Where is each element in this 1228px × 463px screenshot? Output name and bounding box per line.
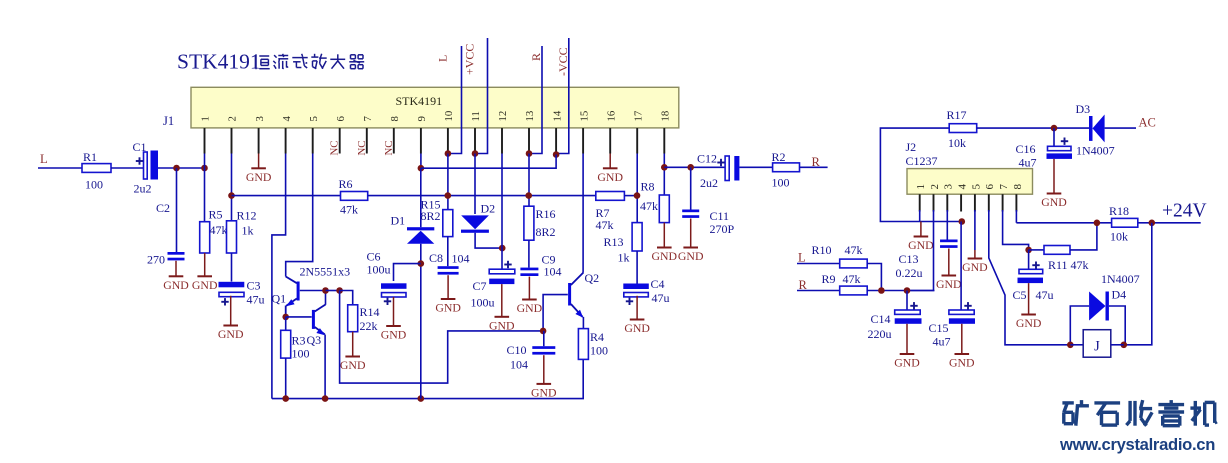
diode D2 bbox=[461, 215, 489, 229]
wire C6 branch bbox=[394, 264, 421, 281]
svg-text:2u2: 2u2 bbox=[700, 176, 718, 190]
svg-text:1k: 1k bbox=[242, 224, 254, 238]
svg-text:220u: 220u bbox=[868, 327, 892, 341]
junction pin14 bbox=[553, 151, 560, 158]
junction bus D1 line bbox=[418, 395, 425, 402]
svg-text:C16: C16 bbox=[1016, 142, 1036, 156]
resistor R15 bbox=[443, 210, 453, 237]
svg-text:7: 7 bbox=[998, 184, 1010, 190]
junction relay left bbox=[1067, 342, 1074, 349]
svg-text:1k: 1k bbox=[618, 251, 630, 265]
svg-text:L: L bbox=[798, 251, 806, 265]
capacitor C6 (100u electrolytic) bbox=[381, 283, 407, 289]
svg-text:100: 100 bbox=[292, 347, 310, 361]
wire R input right bbox=[797, 290, 840, 292]
junction pin18 output node bbox=[661, 164, 668, 171]
capacitor C3 (47u electrolytic) bbox=[219, 282, 245, 288]
svg-text:GND: GND bbox=[949, 356, 975, 370]
svg-text:GND: GND bbox=[531, 386, 557, 400]
junction C14 node bbox=[904, 287, 911, 294]
junction rail R11 bbox=[1094, 220, 1101, 227]
svg-text:C11: C11 bbox=[710, 209, 730, 223]
wire R13 to C4 bbox=[636, 251, 638, 284]
wire pin4 to bottom bus bbox=[272, 154, 286, 399]
svg-text:10: 10 bbox=[443, 111, 455, 122]
capacitor C13 (0.22u) bbox=[940, 240, 958, 243]
capacitor C7 (100u electrolytic) bbox=[489, 269, 515, 274]
resistor R16 bbox=[524, 206, 534, 240]
junction bus R3 bbox=[282, 395, 289, 402]
junction feedback node bbox=[336, 287, 343, 294]
svg-text:+24V: +24V bbox=[1162, 201, 1207, 222]
svg-text:0.22u: 0.22u bbox=[896, 266, 923, 280]
junction pin12 D2 node bbox=[499, 245, 506, 252]
wire bottom bus bbox=[272, 359, 583, 398]
svg-text:www.crystalradio.cn: www.crystalradio.cn bbox=[1059, 435, 1215, 454]
capacitor C10 (104) bbox=[543, 331, 545, 346]
svg-text:+VCC: +VCC bbox=[463, 44, 477, 75]
svg-text:104: 104 bbox=[510, 358, 528, 372]
wire output row bbox=[664, 166, 725, 168]
svg-text:C3: C3 bbox=[247, 279, 261, 293]
resistor R9 bbox=[840, 286, 868, 295]
junction relay right bbox=[1121, 342, 1128, 349]
ground R5 bbox=[204, 253, 206, 276]
transistor Q1 2N5551 bbox=[297, 282, 300, 301]
capacitor C1 (2u2 electrolytic) bbox=[144, 152, 148, 179]
wire pin4 to C15 bbox=[960, 222, 962, 311]
resistor R6 bbox=[341, 192, 368, 201]
svg-text:D4: D4 bbox=[1112, 288, 1127, 302]
transistor Q3 2N5551 bbox=[312, 310, 315, 329]
transistor Q2 2N5551 bbox=[568, 283, 571, 306]
ground R8 bbox=[663, 223, 665, 248]
svg-text:GND: GND bbox=[962, 260, 988, 274]
resistor R8 bbox=[659, 195, 669, 223]
capacitor C16 (4u7 electrolytic) bbox=[1053, 128, 1055, 146]
svg-text:R2: R2 bbox=[772, 150, 786, 164]
svg-text:AC: AC bbox=[1139, 116, 1156, 130]
junction pin10 bbox=[445, 150, 452, 157]
wire R1 to C1 bbox=[111, 167, 144, 169]
svg-text:C15: C15 bbox=[929, 321, 949, 335]
svg-text:10k: 10k bbox=[948, 136, 966, 150]
wire bias row R6 to R7 bbox=[368, 195, 596, 197]
svg-text:47k: 47k bbox=[640, 199, 658, 213]
ground C15 bbox=[961, 324, 963, 354]
resistor R17 bbox=[949, 124, 977, 133]
wire pin2 to input node bbox=[907, 210, 934, 291]
svg-text:4u7: 4u7 bbox=[933, 335, 951, 349]
junction node pin1 bbox=[201, 165, 208, 172]
diode D1 bbox=[420, 168, 422, 227]
svg-text:J2: J2 bbox=[906, 140, 917, 154]
svg-text:14: 14 bbox=[551, 110, 563, 121]
svg-text:100u: 100u bbox=[367, 263, 391, 277]
svg-text:L: L bbox=[436, 55, 450, 62]
svg-text:15: 15 bbox=[578, 111, 590, 122]
wire R10 to node bbox=[867, 264, 881, 291]
svg-text:R6: R6 bbox=[339, 177, 353, 191]
svg-text:Q3: Q3 bbox=[307, 333, 322, 347]
wire C2 branch bbox=[176, 168, 178, 252]
wire R15 to C8 bbox=[447, 237, 449, 267]
wire pin18 down bbox=[663, 154, 665, 196]
wire bias row pin2 to R6 bbox=[232, 195, 341, 197]
junction pin17 bias row bbox=[634, 192, 641, 199]
junction C6 tap bbox=[418, 260, 425, 267]
ground C13 bbox=[948, 249, 950, 276]
wire pin13 down bbox=[528, 154, 530, 207]
svg-text:104: 104 bbox=[452, 252, 470, 266]
wire pin17 down bbox=[636, 154, 638, 223]
svg-text:47k: 47k bbox=[596, 218, 614, 232]
ground C11 bbox=[690, 219, 692, 248]
svg-text:R8: R8 bbox=[641, 180, 655, 194]
ground C4 bbox=[636, 296, 638, 320]
svg-text:C10: C10 bbox=[507, 343, 527, 357]
svg-text:STK4191: STK4191 bbox=[177, 50, 261, 74]
svg-text:GND: GND bbox=[163, 278, 189, 292]
resistor R2 bbox=[773, 163, 800, 172]
wire pin1 to R5 bbox=[204, 168, 206, 222]
ground C8 bbox=[447, 275, 449, 299]
svg-text:270P: 270P bbox=[710, 222, 735, 236]
svg-text:47k: 47k bbox=[843, 272, 861, 286]
wire pin15 to Q2 collector bbox=[582, 154, 584, 273]
diode D3 bbox=[1089, 116, 1093, 141]
svg-text:1N4007: 1N4007 bbox=[1101, 272, 1140, 286]
svg-text:47u: 47u bbox=[247, 293, 265, 307]
net wire R to pin13 bbox=[529, 46, 542, 154]
svg-text:J: J bbox=[1094, 339, 1100, 355]
diode D4 bbox=[1070, 306, 1089, 345]
svg-text:GND: GND bbox=[894, 356, 920, 370]
svg-text:R: R bbox=[812, 155, 821, 169]
wire base row bbox=[326, 290, 340, 292]
svg-text:C6: C6 bbox=[367, 250, 381, 264]
svg-text:GND: GND bbox=[1041, 195, 1067, 209]
svg-text:47k: 47k bbox=[340, 203, 358, 217]
svg-text:10k: 10k bbox=[1110, 230, 1128, 244]
svg-text:8: 8 bbox=[389, 116, 401, 121]
resistor R14 bbox=[348, 305, 358, 332]
junction pin11 bbox=[472, 150, 479, 157]
svg-text:C14: C14 bbox=[871, 312, 891, 326]
junction pin9 node bbox=[418, 165, 425, 172]
wire R3 to bus bbox=[285, 358, 287, 399]
svg-text:47k: 47k bbox=[210, 223, 228, 237]
svg-text:C5: C5 bbox=[1013, 288, 1027, 302]
capacitor C4 (47u electrolytic) bbox=[623, 284, 649, 290]
logo text 矿石收音机 bbox=[1062, 400, 1217, 426]
wire pin12 down bbox=[501, 154, 503, 269]
svg-text:D3: D3 bbox=[1076, 102, 1091, 116]
wire pin10 down bbox=[447, 154, 449, 210]
wire feedback Z to Q2 base node bbox=[340, 291, 543, 384]
svg-text:-VCC: -VCC bbox=[556, 47, 570, 76]
svg-text:1: 1 bbox=[200, 116, 212, 121]
resistor R4 bbox=[578, 329, 588, 360]
ground R14 bbox=[352, 332, 354, 357]
ground C7 bbox=[501, 284, 503, 317]
svg-text:R: R bbox=[529, 53, 543, 61]
wire pin5 to Q1 collector bbox=[286, 154, 313, 277]
ground C5 bbox=[1028, 283, 1030, 314]
svg-text:9: 9 bbox=[416, 116, 428, 121]
svg-text:2: 2 bbox=[929, 184, 941, 190]
svg-text:22k: 22k bbox=[360, 319, 378, 333]
svg-text:NC: NC bbox=[383, 141, 395, 156]
svg-text:8R2: 8R2 bbox=[421, 209, 441, 223]
wire input L bbox=[38, 167, 82, 169]
svg-text:R18: R18 bbox=[1109, 204, 1129, 218]
svg-text:5: 5 bbox=[970, 184, 982, 190]
junction Q2 base C10 node bbox=[540, 328, 547, 335]
svg-text:270: 270 bbox=[147, 253, 165, 267]
wire relay left stub bbox=[1070, 344, 1083, 346]
svg-text:D1: D1 bbox=[391, 214, 406, 228]
capacitor C14 (220u electrolytic) bbox=[906, 291, 908, 311]
wire pin7 to node bbox=[1003, 210, 1029, 250]
svg-text:C13: C13 bbox=[899, 252, 919, 266]
ground C10 bbox=[543, 355, 545, 384]
svg-text:7: 7 bbox=[362, 116, 374, 122]
capacitor C15 (4u7 electrolytic) bbox=[949, 310, 974, 314]
wire Q1 base to node bbox=[300, 290, 326, 292]
wire R17 to D3 bbox=[977, 127, 1089, 129]
svg-text:GND: GND bbox=[624, 321, 650, 335]
svg-text:4: 4 bbox=[957, 184, 969, 190]
junction bus Q3 bbox=[322, 395, 329, 402]
resistor R11 bbox=[1029, 249, 1044, 251]
wire R2 to output R bbox=[800, 166, 828, 168]
svg-text:R13: R13 bbox=[604, 235, 624, 249]
wire relay right stub bbox=[1111, 344, 1124, 346]
wire R12 to C3 bbox=[231, 253, 233, 282]
net wire L to pin10 bbox=[448, 46, 462, 154]
wire pin6 to relay row bbox=[989, 210, 1071, 345]
ground pin3 bbox=[258, 154, 260, 169]
wire pin5 down bbox=[974, 210, 976, 250]
svg-text:R1: R1 bbox=[83, 150, 97, 164]
svg-text:GND: GND bbox=[597, 170, 623, 184]
ground pin5 J2 bbox=[974, 250, 976, 259]
net wire -VCC to pin14 bbox=[556, 38, 569, 154]
junction pin13 bbox=[526, 150, 533, 157]
svg-text:17: 17 bbox=[632, 110, 644, 121]
ground C9 bbox=[528, 277, 530, 300]
svg-text:Q2: Q2 bbox=[585, 271, 600, 285]
ground pin16 bbox=[609, 154, 611, 169]
junction node C2 tap bbox=[173, 165, 180, 172]
svg-text:2: 2 bbox=[227, 116, 239, 121]
svg-text:GND: GND bbox=[381, 328, 407, 342]
svg-text:GND: GND bbox=[908, 238, 934, 252]
svg-text:R11 47k: R11 47k bbox=[1048, 258, 1089, 272]
ground C16 bbox=[1053, 159, 1055, 194]
ground C3 bbox=[230, 296, 232, 326]
IC U2 pins 1-8 stubs bbox=[920, 194, 1017, 211]
wire C12 to R2 bbox=[739, 166, 772, 168]
ground C14 bbox=[906, 324, 908, 354]
svg-text:R14: R14 bbox=[360, 305, 380, 319]
svg-text:47u: 47u bbox=[1036, 288, 1054, 302]
svg-text:100: 100 bbox=[85, 178, 103, 192]
svg-text:5: 5 bbox=[308, 116, 320, 121]
svg-text:3: 3 bbox=[943, 184, 955, 190]
svg-text:18: 18 bbox=[660, 111, 672, 122]
wire Q1 emitter node to Q3 base bbox=[286, 316, 312, 318]
svg-text:NC: NC bbox=[329, 141, 341, 156]
wire node to R14 bbox=[340, 291, 353, 305]
wire pin9 down bbox=[420, 154, 422, 169]
capacitor C5 (47u electrolytic) bbox=[1028, 250, 1030, 269]
IC U2 pin numbers 1-8 bbox=[915, 183, 1024, 189]
wire -VCC row bbox=[421, 155, 556, 169]
svg-text:R9: R9 bbox=[822, 272, 836, 286]
svg-text:R17: R17 bbox=[947, 108, 967, 122]
svg-text:GND: GND bbox=[340, 358, 366, 372]
svg-text:2u2: 2u2 bbox=[134, 182, 152, 196]
svg-text:104: 104 bbox=[544, 265, 562, 279]
svg-text:J1: J1 bbox=[163, 114, 174, 128]
svg-text:Q1: Q1 bbox=[272, 292, 287, 306]
IC U1 pin numbers 1-18 bbox=[200, 110, 672, 121]
title text (CJK) 恒流式放大器 bbox=[256, 54, 364, 69]
svg-text:R5: R5 bbox=[209, 208, 223, 222]
wire pin1 down bbox=[919, 210, 921, 222]
svg-text:L: L bbox=[40, 152, 48, 166]
svg-text:11: 11 bbox=[470, 111, 482, 121]
svg-text:C1: C1 bbox=[133, 140, 147, 154]
junction C11 tap bbox=[687, 164, 694, 171]
svg-text:100: 100 bbox=[590, 344, 608, 358]
IC U2 C1237 body bbox=[907, 169, 1033, 195]
svg-text:GND: GND bbox=[1016, 316, 1042, 330]
junction pin10 bias row bbox=[445, 192, 452, 199]
svg-text:100: 100 bbox=[772, 176, 790, 190]
wire R11 to rail bbox=[1070, 223, 1097, 250]
junction pin2 bias row bbox=[228, 192, 235, 199]
relay J box bbox=[1083, 330, 1111, 358]
svg-text:C8: C8 bbox=[429, 251, 443, 265]
svg-text:GND: GND bbox=[936, 277, 962, 291]
svg-text:R12: R12 bbox=[237, 209, 257, 223]
wire pin11 down bbox=[474, 154, 476, 215]
resistor R5 bbox=[200, 222, 210, 253]
capacitor C9 (104) bbox=[520, 268, 538, 271]
svg-text:12: 12 bbox=[497, 111, 509, 122]
wire Q2 base bbox=[543, 295, 568, 331]
svg-text:3: 3 bbox=[254, 116, 266, 121]
svg-text:100u: 100u bbox=[471, 296, 495, 310]
svg-text:R3: R3 bbox=[292, 334, 306, 348]
wire C1 to pin1 bbox=[158, 167, 205, 169]
net wire +VCC to pin11 bbox=[475, 38, 488, 154]
svg-text:GND: GND bbox=[218, 327, 244, 341]
capacitor C11 (270P) bbox=[682, 210, 699, 213]
svg-text:C7: C7 bbox=[473, 279, 487, 293]
svg-text:GND: GND bbox=[678, 249, 704, 263]
junction R10 node bbox=[878, 287, 885, 294]
svg-text:C4: C4 bbox=[651, 277, 665, 291]
svg-text:C2: C2 bbox=[156, 201, 170, 215]
svg-text:1: 1 bbox=[915, 184, 927, 190]
wire pin1 stub down bbox=[204, 154, 206, 169]
wire +24V rail bbox=[1016, 222, 1200, 224]
junction C5 R11 node bbox=[1025, 247, 1032, 254]
capacitor C12 (2u2 electrolytic) bbox=[725, 156, 729, 181]
svg-text:GND: GND bbox=[246, 170, 272, 184]
svg-text:GND: GND bbox=[192, 278, 218, 292]
junction rail relay riser bbox=[1149, 220, 1156, 227]
ground C6 bbox=[393, 297, 395, 326]
wire R9 to pin2 corner bbox=[867, 290, 934, 292]
svg-text:STK4191: STK4191 bbox=[396, 94, 443, 108]
capacitor C8 (104) bbox=[438, 266, 459, 269]
svg-text:4: 4 bbox=[281, 116, 293, 122]
svg-text:NC: NC bbox=[356, 141, 368, 156]
wire R16 to C9 bbox=[528, 240, 530, 267]
wire pin8 down bbox=[1015, 210, 1017, 223]
junction pin13 bias row bbox=[525, 192, 532, 199]
wire L input right bbox=[797, 263, 840, 265]
svg-text:GND: GND bbox=[652, 249, 678, 263]
svg-text:47u: 47u bbox=[652, 291, 670, 305]
wire R7 to pin17 node bbox=[624, 195, 637, 197]
wire R17 loop to pin row bbox=[880, 128, 961, 221]
wire Q3 collector up bbox=[325, 291, 327, 305]
svg-text:GND: GND bbox=[517, 301, 543, 315]
svg-text:R10: R10 bbox=[812, 243, 832, 257]
junction Q3 collector node bbox=[322, 287, 329, 294]
ground C2 bbox=[175, 261, 177, 277]
IC U1 STK4191 body bbox=[191, 87, 679, 128]
svg-text:D2: D2 bbox=[481, 202, 496, 216]
svg-text:R16: R16 bbox=[536, 207, 556, 221]
svg-text:6: 6 bbox=[335, 116, 347, 122]
svg-text:13: 13 bbox=[524, 111, 536, 122]
svg-text:C1237: C1237 bbox=[906, 154, 938, 168]
svg-text:47k: 47k bbox=[845, 243, 863, 257]
svg-text:6: 6 bbox=[984, 184, 996, 190]
wire pin3 down bbox=[946, 210, 948, 240]
junction C16 tap bbox=[1051, 125, 1058, 132]
svg-text:2N5551x3: 2N5551x3 bbox=[300, 265, 351, 279]
svg-text:1N4007: 1N4007 bbox=[1076, 144, 1115, 158]
wire relay riser bbox=[1124, 223, 1152, 345]
wire C11 branch bbox=[690, 167, 692, 209]
resistor R12 bbox=[227, 221, 237, 253]
svg-text:4u7: 4u7 bbox=[1019, 156, 1037, 170]
junction Q1 emitter node bbox=[282, 314, 289, 321]
junction pin4 node bbox=[959, 218, 966, 225]
ground pin1 J2 bbox=[920, 222, 922, 237]
svg-text:GND: GND bbox=[435, 301, 461, 315]
svg-text:16: 16 bbox=[605, 110, 617, 121]
IC U1 pins 1-18 stubs bbox=[205, 128, 665, 154]
svg-text:R4: R4 bbox=[590, 330, 604, 344]
svg-text:C12: C12 bbox=[697, 152, 717, 166]
capacitor C2 (270) bbox=[168, 252, 185, 255]
svg-text:GND: GND bbox=[489, 318, 515, 332]
resistor R7 bbox=[596, 192, 625, 201]
resistor R18 bbox=[1112, 218, 1138, 227]
wire pin2 down bbox=[231, 154, 233, 221]
resistor R13 bbox=[632, 223, 642, 251]
svg-text:8: 8 bbox=[1012, 183, 1024, 189]
